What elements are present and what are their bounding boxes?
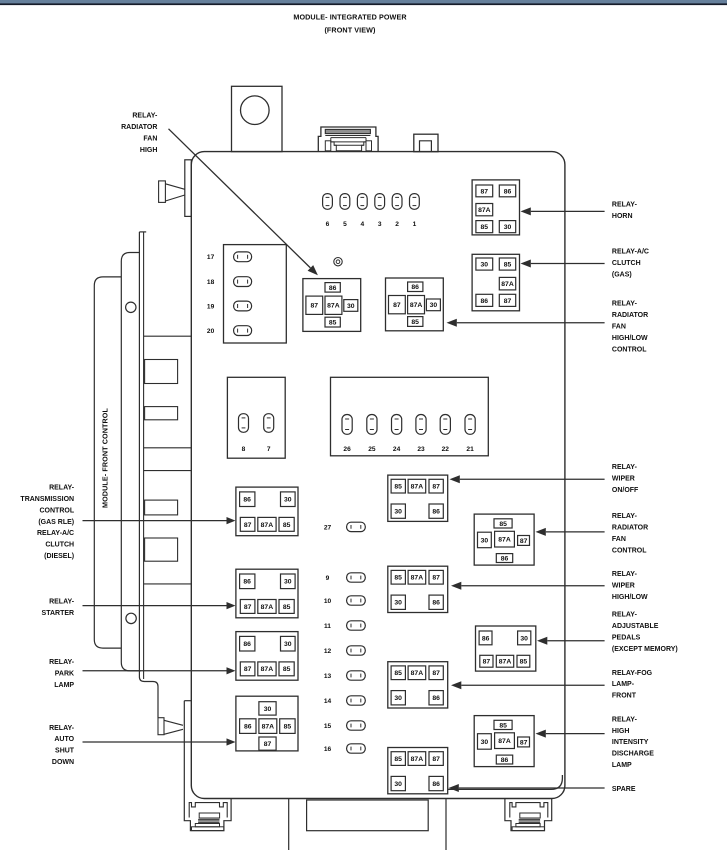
svg-text:RELAY-: RELAY- — [49, 659, 75, 666]
svg-text:30: 30 — [284, 641, 292, 648]
svg-text:12: 12 — [324, 648, 332, 655]
svg-text:26: 26 — [343, 446, 351, 453]
svg-text:87A: 87A — [501, 281, 514, 288]
svg-text:85: 85 — [394, 575, 402, 582]
svg-text:17: 17 — [207, 254, 215, 261]
svg-text:86: 86 — [432, 509, 440, 516]
svg-text:9: 9 — [326, 575, 330, 582]
svg-text:87A: 87A — [411, 670, 424, 677]
svg-text:85: 85 — [394, 670, 402, 677]
svg-text:RELAY-: RELAY- — [612, 611, 638, 618]
svg-text:21: 21 — [466, 446, 474, 453]
svg-text:85: 85 — [283, 666, 291, 673]
svg-text:13: 13 — [324, 673, 332, 680]
svg-text:87A: 87A — [261, 604, 274, 611]
svg-text:23: 23 — [417, 446, 425, 453]
svg-text:WIPER: WIPER — [612, 475, 635, 482]
svg-text:85: 85 — [283, 522, 291, 529]
svg-text:30: 30 — [394, 695, 402, 702]
svg-text:86: 86 — [243, 641, 251, 648]
svg-text:87A: 87A — [411, 484, 424, 491]
svg-text:RELAY-: RELAY- — [132, 113, 158, 120]
svg-text:RADIATOR: RADIATOR — [121, 124, 157, 131]
svg-text:86: 86 — [501, 757, 509, 764]
svg-text:85: 85 — [499, 521, 507, 528]
svg-text:87: 87 — [244, 522, 252, 529]
svg-text:85: 85 — [499, 722, 507, 729]
svg-text:86: 86 — [432, 600, 440, 607]
svg-text:DOWN: DOWN — [52, 759, 74, 766]
svg-text:24: 24 — [393, 446, 401, 453]
svg-text:86: 86 — [432, 781, 440, 788]
svg-text:1: 1 — [413, 221, 417, 228]
svg-text:HIGH: HIGH — [140, 147, 158, 154]
svg-text:FAN: FAN — [612, 536, 626, 543]
svg-text:RELAY-: RELAY- — [612, 201, 638, 208]
svg-text:87A: 87A — [478, 207, 491, 214]
svg-text:CONTROL: CONTROL — [612, 346, 647, 353]
svg-text:30: 30 — [394, 509, 402, 516]
svg-text:22: 22 — [442, 446, 450, 453]
svg-text:30: 30 — [284, 497, 292, 504]
svg-text:RELAY-: RELAY- — [612, 716, 638, 723]
svg-text:85: 85 — [394, 484, 402, 491]
svg-text:30: 30 — [264, 706, 272, 713]
svg-text:87A: 87A — [498, 537, 511, 544]
svg-text:5: 5 — [343, 221, 347, 228]
svg-text:ON/OFF: ON/OFF — [612, 487, 639, 494]
svg-text:30: 30 — [394, 781, 402, 788]
svg-text:RELAY-: RELAY- — [49, 725, 75, 732]
svg-text:(FRONT VIEW): (FRONT VIEW) — [324, 26, 376, 35]
svg-text:(GAS): (GAS) — [612, 271, 632, 278]
svg-text:HIGH/LOW: HIGH/LOW — [612, 335, 648, 342]
svg-text:8: 8 — [242, 446, 246, 453]
svg-text:LAMP: LAMP — [612, 762, 632, 769]
svg-text:ADJUSTABLE: ADJUSTABLE — [612, 623, 659, 630]
svg-text:20: 20 — [207, 328, 215, 335]
svg-text:86: 86 — [482, 635, 490, 642]
svg-text:30: 30 — [504, 224, 512, 231]
svg-text:85: 85 — [520, 659, 528, 666]
svg-text:10: 10 — [324, 598, 332, 605]
svg-text:87A: 87A — [261, 666, 274, 673]
svg-text:85: 85 — [284, 724, 292, 731]
svg-text:86: 86 — [501, 556, 509, 563]
svg-text:87: 87 — [432, 756, 440, 763]
svg-text:RELAY-: RELAY- — [612, 571, 638, 578]
svg-text:(DIESEL): (DIESEL) — [44, 553, 74, 560]
svg-text:SPARE: SPARE — [612, 786, 636, 793]
svg-text:RELAY-: RELAY- — [612, 301, 638, 308]
svg-text:30: 30 — [430, 302, 438, 309]
svg-text:STARTER: STARTER — [42, 610, 75, 617]
svg-text:CONTROL: CONTROL — [39, 507, 74, 514]
svg-text:30: 30 — [481, 739, 489, 746]
svg-text:86: 86 — [432, 695, 440, 702]
svg-text:HORN: HORN — [612, 213, 633, 220]
svg-text:87A: 87A — [411, 575, 424, 582]
svg-text:FAN: FAN — [612, 323, 626, 330]
svg-text:87: 87 — [244, 604, 252, 611]
svg-text:MODULE- FRONT CONTROL: MODULE- FRONT CONTROL — [101, 408, 110, 508]
svg-text:86: 86 — [481, 298, 489, 305]
svg-text:11: 11 — [324, 623, 331, 630]
svg-text:4: 4 — [360, 221, 364, 228]
svg-text:19: 19 — [207, 303, 215, 310]
svg-text:LAMP-: LAMP- — [612, 681, 635, 688]
svg-text:LAMP: LAMP — [54, 682, 74, 689]
svg-text:85: 85 — [411, 319, 419, 326]
svg-text:86: 86 — [411, 284, 419, 291]
svg-text:85: 85 — [504, 261, 512, 268]
svg-text:(EXCEPT MEMORY): (EXCEPT MEMORY) — [612, 646, 678, 653]
svg-text:16: 16 — [324, 746, 332, 753]
svg-text:14: 14 — [324, 698, 332, 705]
svg-text:87: 87 — [481, 188, 489, 195]
svg-text:87: 87 — [520, 538, 528, 545]
svg-text:CONTROL: CONTROL — [612, 548, 647, 555]
svg-text:30: 30 — [347, 303, 355, 310]
svg-text:87: 87 — [393, 302, 401, 309]
svg-text:30: 30 — [481, 261, 489, 268]
svg-text:RELAY-: RELAY- — [612, 464, 638, 471]
svg-text:87: 87 — [520, 739, 528, 746]
svg-text:RELAY-: RELAY- — [612, 513, 638, 520]
svg-text:27: 27 — [324, 524, 332, 531]
svg-text:PEDALS: PEDALS — [612, 634, 641, 641]
svg-text:HIGH: HIGH — [612, 728, 630, 735]
svg-text:TRANSMISSION: TRANSMISSION — [20, 496, 74, 503]
svg-text:CLUTCH: CLUTCH — [612, 260, 641, 267]
svg-text:87: 87 — [264, 741, 272, 748]
svg-text:30: 30 — [520, 635, 528, 642]
svg-text:25: 25 — [368, 446, 376, 453]
svg-text:85: 85 — [283, 604, 291, 611]
svg-text:87: 87 — [244, 666, 252, 673]
svg-text:(GAS RLE): (GAS RLE) — [38, 519, 74, 526]
svg-text:30: 30 — [394, 600, 402, 607]
svg-text:87: 87 — [504, 298, 512, 305]
svg-text:CLUTCH: CLUTCH — [45, 542, 74, 549]
svg-text:RELAY-: RELAY- — [49, 484, 75, 491]
svg-text:87A: 87A — [262, 724, 275, 731]
svg-text:15: 15 — [324, 723, 332, 730]
svg-text:87A: 87A — [327, 303, 340, 310]
svg-text:6: 6 — [326, 221, 330, 228]
svg-text:86: 86 — [243, 497, 251, 504]
svg-text:WIPER: WIPER — [612, 583, 635, 590]
svg-text:RELAY-: RELAY- — [49, 599, 75, 606]
svg-text:FAN: FAN — [143, 136, 157, 143]
svg-text:87A: 87A — [261, 522, 274, 529]
svg-text:85: 85 — [481, 224, 489, 231]
svg-text:87A: 87A — [411, 756, 424, 763]
svg-text:FRONT: FRONT — [612, 693, 637, 700]
svg-text:87: 87 — [432, 670, 440, 677]
svg-text:87A: 87A — [410, 302, 423, 309]
svg-text:PARK: PARK — [55, 671, 74, 678]
svg-text:87A: 87A — [498, 738, 511, 745]
svg-text:RADIATOR: RADIATOR — [612, 525, 648, 532]
svg-text:86: 86 — [329, 285, 337, 292]
svg-text:87A: 87A — [499, 659, 512, 666]
svg-text:RADIATOR: RADIATOR — [612, 312, 648, 319]
svg-text:DISCHARGE: DISCHARGE — [612, 751, 654, 758]
svg-text:30: 30 — [481, 537, 489, 544]
svg-text:RELAY-A/C: RELAY-A/C — [37, 530, 74, 537]
svg-text:87: 87 — [432, 484, 440, 491]
svg-text:MODULE- INTEGRATED POWER: MODULE- INTEGRATED POWER — [293, 13, 407, 22]
svg-text:INTENSITY: INTENSITY — [612, 739, 649, 746]
svg-text:2: 2 — [395, 221, 399, 228]
svg-text:RELAY-A/C: RELAY-A/C — [612, 248, 649, 255]
svg-text:85: 85 — [394, 756, 402, 763]
svg-text:87: 87 — [432, 575, 440, 582]
svg-text:SHUT: SHUT — [55, 748, 75, 755]
svg-text:30: 30 — [284, 579, 292, 586]
svg-text:HIGH/LOW: HIGH/LOW — [612, 594, 648, 601]
svg-text:86: 86 — [244, 724, 252, 731]
svg-text:18: 18 — [207, 279, 215, 286]
svg-text:3: 3 — [378, 221, 382, 228]
svg-text:RELAY-FOG: RELAY-FOG — [612, 670, 653, 677]
svg-text:87: 87 — [311, 303, 319, 310]
svg-text:86: 86 — [504, 188, 512, 195]
svg-text:86: 86 — [243, 579, 251, 586]
svg-text:AUTO: AUTO — [54, 736, 74, 743]
svg-text:87: 87 — [483, 659, 491, 666]
svg-text:85: 85 — [329, 320, 337, 327]
svg-text:7: 7 — [267, 446, 271, 453]
